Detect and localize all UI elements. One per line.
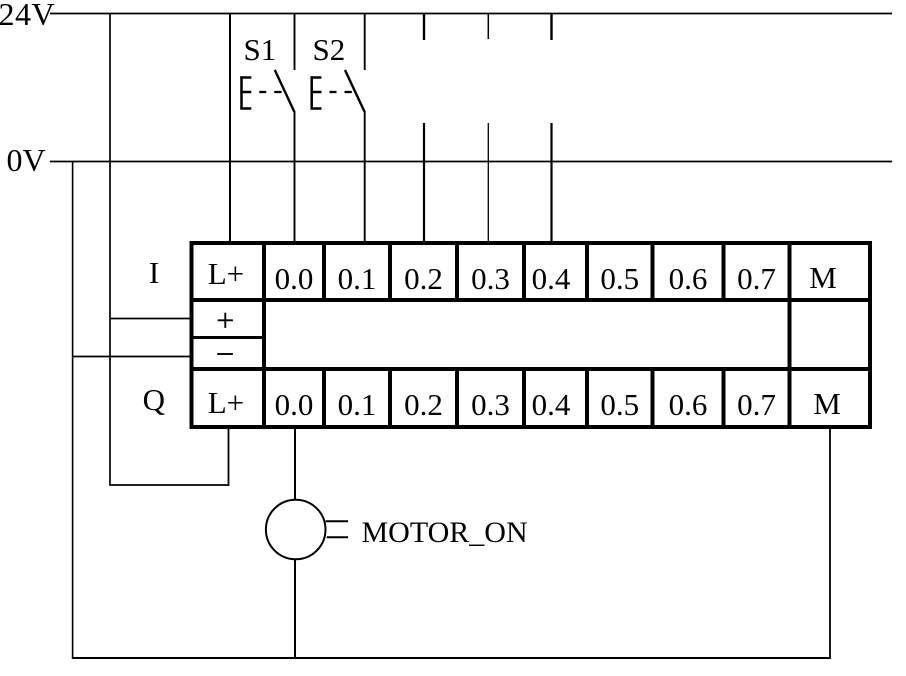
svg-text:0.3: 0.3	[471, 261, 510, 296]
wire input 0.2 drop	[423, 123, 425, 243]
svg-text:I: I	[149, 255, 159, 290]
PLC terminal block outline	[190, 241, 873, 429]
svg-text:0.2: 0.2	[404, 261, 443, 296]
wire motor to bottom return	[294, 559, 296, 658]
wire input 0.3 drop	[487, 123, 489, 243]
svg-text:0.3: 0.3	[471, 387, 510, 422]
wire bottom return	[72, 657, 830, 659]
PLC column dividers I row	[324, 243, 724, 302]
svg-text:L+: L+	[208, 256, 244, 291]
svg-text:MOTOR_ON: MOTOR_ON	[362, 516, 528, 549]
svg-text:24V: 24V	[0, 0, 55, 32]
wire input 0.3 stub	[487, 14, 489, 40]
svg-text:Q: Q	[143, 382, 165, 417]
svg-text:0.2: 0.2	[404, 387, 443, 422]
svg-text:0.7: 0.7	[737, 387, 776, 422]
svg-text:0.4: 0.4	[532, 387, 571, 422]
svg-text:0.1: 0.1	[338, 387, 377, 422]
wire input 0.4 stub	[550, 14, 552, 41]
svg-text:0.6: 0.6	[669, 387, 708, 422]
svg-text:0.5: 0.5	[600, 387, 639, 422]
wire 24V power feed vertical	[109, 14, 111, 486]
PLC column dividers full	[264, 243, 790, 427]
wire Q M drop	[829, 427, 831, 659]
svg-text:0.1: 0.1	[338, 261, 377, 296]
svg-text:0.6: 0.6	[669, 261, 708, 296]
svg-text:0.7: 0.7	[737, 261, 776, 296]
PLC column dividers Q row	[324, 367, 724, 427]
wire to plus terminal	[110, 318, 192, 320]
wire 0V to minus terminal	[73, 356, 192, 358]
svg-text:0.0: 0.0	[275, 387, 314, 422]
svg-text:0.4: 0.4	[532, 261, 571, 296]
wire 0V left drop	[72, 161, 74, 658]
terminal minus	[217, 353, 233, 355]
svg-text:0.0: 0.0	[275, 261, 314, 296]
wire 24V rail	[50, 13, 892, 15]
svg-text:M: M	[809, 260, 837, 295]
wire Q0.0 to motor	[294, 427, 296, 500]
switch S1	[240, 14, 294, 244]
svg-text:S1: S1	[244, 32, 277, 67]
wire Q L+ feed vertical	[228, 427, 230, 486]
motor terminal ticks	[326, 521, 348, 537]
svg-text:L+: L+	[208, 385, 244, 420]
svg-text:0V: 0V	[7, 142, 46, 178]
svg-text:0.5: 0.5	[600, 261, 639, 296]
wire Q L+ feed horizontal	[109, 484, 228, 486]
wire 0V rail	[50, 161, 892, 163]
svg-text:M: M	[813, 386, 841, 421]
PLC divider plus minus	[190, 336, 267, 339]
svg-text:S2: S2	[313, 32, 346, 67]
motor coil MOTOR_ON	[266, 500, 326, 560]
PLC row divider I bottom	[190, 298, 873, 302]
terminal plus	[218, 313, 233, 328]
wire 24V to I L+	[229, 14, 231, 244]
wire input 0.4 drop	[550, 123, 552, 243]
wire input 0.2 stub	[423, 14, 425, 41]
switch S2	[311, 14, 365, 244]
PLC row divider Q top	[190, 367, 873, 371]
